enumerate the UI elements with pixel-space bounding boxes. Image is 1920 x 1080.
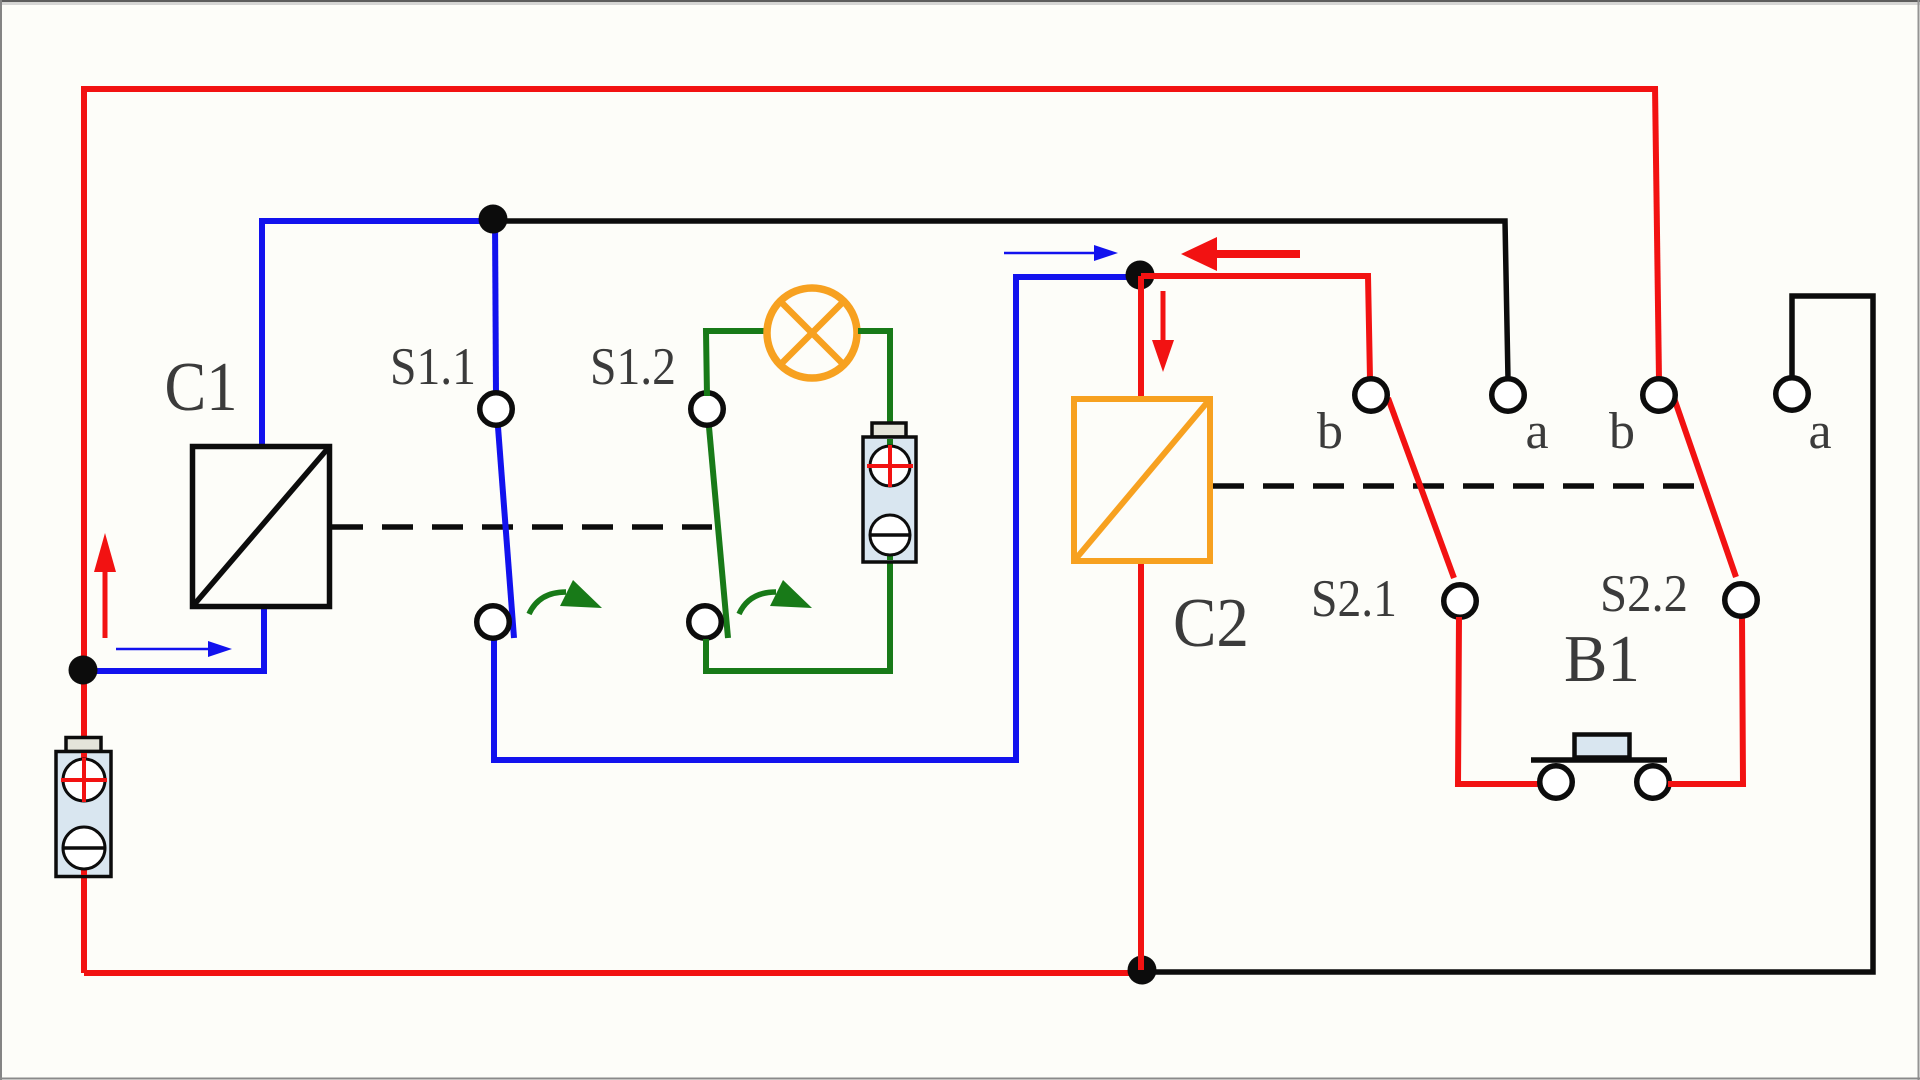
wire: black from contact a (right) to bottom rail xyxy=(1148,296,1873,972)
svg-text:a: a xyxy=(1808,403,1831,460)
wire: red top rail xyxy=(81,86,1657,92)
svg-text:S1.2: S1.2 xyxy=(590,338,676,396)
node: bottom junction xyxy=(1128,956,1157,985)
contact a of S2.1 (black) xyxy=(1492,379,1525,412)
wire: green battery G2 to S1.2 bottom contact xyxy=(706,555,890,671)
wire: blue battery node to C1 bottom xyxy=(83,605,264,671)
wire: blue S1.1 bottom to C2 junction xyxy=(494,277,1132,760)
wire: red bottom rail xyxy=(84,970,1142,976)
wire: blue C1 top to top junction xyxy=(262,221,494,448)
svg-text:b: b xyxy=(1609,403,1635,460)
contact a of S2.2 (black) xyxy=(1776,378,1809,411)
svg-text:S2.2: S2.2 xyxy=(1600,565,1688,623)
node: battery positive node xyxy=(69,656,98,685)
push button B1 xyxy=(1531,735,1669,799)
switch S2.2 xyxy=(1643,379,1758,617)
mechanical link of C2 (dashed) xyxy=(1213,483,1706,489)
wire: red right rail to contact b of S2.2 xyxy=(1655,86,1659,380)
wire: blue top junction to S1.1 top contact xyxy=(495,219,496,396)
wire: red C2 junction to contact b of S2.1 xyxy=(1141,276,1370,379)
battery G1 (main supply, on red rail) xyxy=(56,738,111,877)
relay coil C2 xyxy=(1074,399,1210,561)
wire: green S1.2 top contact to lamp xyxy=(706,331,766,396)
svg-text:S1.1: S1.1 xyxy=(390,338,476,396)
lamp E1 xyxy=(767,288,857,378)
mechanical link of C1 (dashed) xyxy=(332,524,712,530)
wire: red C2 bottom to bottom junction xyxy=(1138,560,1144,970)
current arrow: red up (left rail) xyxy=(94,533,116,638)
wire: black top rail to contact a of S2.1 xyxy=(497,221,1508,379)
actuation arrow of S1.2 (green) xyxy=(739,580,812,614)
switch S2.1 xyxy=(1355,379,1477,618)
svg-text:S2.1: S2.1 xyxy=(1311,570,1397,628)
svg-text:C2: C2 xyxy=(1173,585,1249,662)
actuation arrow of S1.1 (green) xyxy=(529,580,602,614)
current arrow: blue right (to C1) xyxy=(116,641,232,657)
node: top junction xyxy=(479,205,508,234)
battery G2 (lamp circuit) xyxy=(863,423,916,562)
svg-text:b: b xyxy=(1317,403,1343,460)
wire: red push button to S2.2 bottom xyxy=(1668,616,1743,784)
switch S1.2 xyxy=(689,393,728,639)
current arrow: red down (into C2) xyxy=(1152,291,1174,372)
svg-text:B1: B1 xyxy=(1564,622,1640,696)
current arrow: red left (into C2 junction) xyxy=(1181,237,1300,271)
relay coil C1 xyxy=(193,447,330,607)
svg-text:a: a xyxy=(1525,403,1548,460)
wire: red S2.1 bottom to push button xyxy=(1458,617,1541,784)
svg-text:C1: C1 xyxy=(165,349,238,426)
wire: red C2 junction down to C2 xyxy=(1138,276,1144,400)
wire: green lamp to battery G2 xyxy=(858,331,890,430)
wire: red left rail xyxy=(81,90,87,973)
current arrow: blue right (into C2 junction) xyxy=(1004,245,1118,261)
node: C2 junction xyxy=(1126,261,1155,290)
switch S1.1 xyxy=(477,393,514,639)
